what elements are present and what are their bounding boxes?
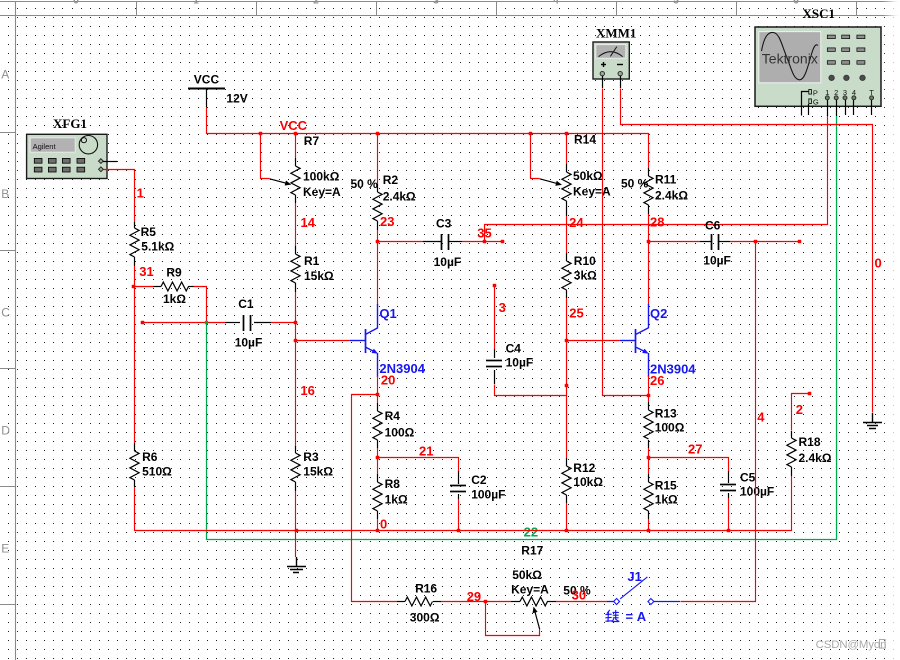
svg-text:6: 6	[793, 0, 799, 7]
wire R13 to node27	[648, 448, 650, 458]
svg-text:C: C	[1, 306, 10, 320]
endpoint node3	[493, 284, 497, 288]
svg-text:R14: R14	[574, 133, 596, 147]
svg-text:R5: R5	[141, 225, 157, 239]
svg-text:1: 1	[137, 186, 144, 201]
svg-text:C2: C2	[471, 473, 487, 487]
svg-text:R8: R8	[385, 477, 401, 491]
junction bus-R8	[376, 529, 380, 533]
svg-text:E: E	[1, 542, 9, 556]
wire Q1 collector	[377, 242, 379, 305]
junction VCC-R7wiper	[259, 132, 263, 136]
label key A	[606, 610, 619, 621]
capacitor C3 10uF	[378, 241, 423, 243]
svg-text:4: 4	[757, 410, 765, 425]
svg-text:16: 16	[300, 383, 314, 398]
svg-text:Key=A: Key=A	[573, 185, 611, 199]
right edge fade	[883, 0, 900, 660]
wire node20 to R16	[352, 395, 398, 602]
svg-text:3: 3	[433, 0, 439, 7]
svg-text:R10: R10	[574, 254, 596, 268]
svg-text:XFG1: XFG1	[53, 116, 87, 131]
instrument XMM1 multimeter	[593, 26, 636, 80]
wire C4 bottom to R12 column	[495, 385, 567, 396]
wire Q1 emitter to node20	[377, 376, 379, 394]
wire VCC stem	[206, 107, 208, 134]
potentiometer R7 100k Key=A	[295, 134, 297, 158]
wire R14 to 24line	[566, 216, 568, 224]
svg-text:R7: R7	[304, 134, 320, 148]
svg-text:1kΩ: 1kΩ	[655, 493, 678, 507]
svg-text:1: 1	[193, 0, 199, 7]
resistor R1 15k	[295, 246, 297, 254]
svg-text:G: G	[813, 98, 819, 107]
pot R17 wiper arrow	[535, 611, 540, 630]
svg-text:2: 2	[313, 0, 319, 7]
junction R12 column	[565, 384, 569, 388]
junction VCC-R7	[294, 132, 298, 136]
svg-text:= A: = A	[626, 609, 647, 624]
wire XMM1 plus to node26	[603, 89, 649, 396]
junction node29	[484, 600, 488, 604]
instrument XFG1 function generator	[27, 116, 107, 179]
svg-text:R15: R15	[655, 479, 677, 493]
svg-text:J1: J1	[627, 569, 641, 584]
svg-text:C4: C4	[506, 342, 522, 356]
potentiometer R17 50k Key=A	[485, 601, 511, 603]
junction bus-C2	[457, 529, 461, 533]
svg-text:23: 23	[380, 214, 394, 229]
wire node14 R7 to R1	[295, 203, 297, 246]
resistor R4 100	[377, 394, 379, 403]
svg-text:R17: R17	[521, 544, 543, 558]
svg-text:3kΩ: 3kΩ	[574, 269, 597, 283]
transistor Q1 2N3904	[365, 329, 367, 353]
svg-text:C3: C3	[436, 217, 452, 231]
wire Q2 emitter to node26	[648, 376, 650, 395]
svg-text:31: 31	[139, 264, 153, 279]
wire R3 to ground	[295, 491, 297, 557]
wire net24 to scope ch1	[485, 116, 828, 242]
svg-text:Key=A: Key=A	[511, 583, 549, 597]
resistor R8 1k	[377, 457, 379, 474]
svg-text:D: D	[1, 424, 10, 438]
wire R14 wiper	[531, 134, 540, 179]
resistor R13 100	[648, 395, 650, 402]
svg-text:R11: R11	[655, 173, 677, 187]
sheet border ruler top	[0, 1, 900, 3]
wire scope G stub	[808, 104, 810, 115]
capacitor C1 10uF	[143, 322, 225, 324]
svg-text:14: 14	[301, 215, 316, 230]
svg-text:30: 30	[572, 588, 586, 603]
svg-text:100kΩ: 100kΩ	[303, 170, 340, 184]
svg-text:XSC1: XSC1	[803, 6, 836, 21]
capacitor C4 10uF	[494, 285, 496, 349]
svg-text:29: 29	[467, 589, 481, 604]
wire R6 to bottom bus	[134, 487, 136, 531]
wire scope ch4 stub	[853, 100, 855, 115]
pot R7 wiper arrow	[270, 179, 288, 184]
capacitor C6 10uF	[648, 241, 700, 243]
junction C1 green tap	[205, 321, 208, 324]
junction bus-C5	[727, 529, 731, 533]
resistor R11 2.4k	[648, 168, 650, 176]
svg-text:2.4kΩ: 2.4kΩ	[383, 190, 416, 204]
svg-text:15kΩ: 15kΩ	[304, 269, 334, 283]
junction VCC-R14	[565, 132, 569, 136]
wire node25 to R12	[566, 341, 568, 458]
wire bottom bus net0	[134, 530, 792, 532]
wire R4 to node21	[377, 448, 379, 457]
wire XFG1 top stub	[103, 161, 117, 163]
endpoint C6 right	[798, 240, 802, 244]
switch J1 Key=A	[607, 601, 614, 603]
svg-text:A: A	[1, 68, 9, 82]
wire R7 wiper	[261, 134, 270, 179]
svg-text:R6: R6	[142, 450, 158, 464]
wire net22 green C1 to scope ch2	[207, 116, 837, 540]
junction C3-24line	[483, 240, 487, 244]
wire scope ch3 stub	[845, 100, 847, 115]
wire R11 to node28	[648, 214, 650, 242]
wire R17 wiper loop	[486, 602, 540, 636]
resistor R3 15k	[295, 446, 297, 453]
svg-text:10µF: 10µF	[506, 356, 534, 370]
junction node25	[565, 339, 569, 343]
svg-text:5.1kΩ: 5.1kΩ	[141, 240, 174, 254]
junction R3-bus	[295, 529, 299, 533]
svg-text:P: P	[813, 89, 818, 98]
wire R2 to node23	[377, 230, 379, 242]
wire R9 to C1 wire	[194, 287, 207, 323]
svg-text:1kΩ: 1kΩ	[385, 493, 408, 507]
wire node27 to C5	[649, 458, 729, 472]
wire scope T stub	[871, 100, 873, 115]
wire net0 XMM1 minus to right ground	[621, 89, 873, 413]
resistor R10 3k	[566, 224, 568, 253]
ground right	[872, 413, 874, 422]
svg-text:C5: C5	[740, 471, 756, 485]
svg-text:21: 21	[419, 444, 433, 459]
wire R5 to node31	[134, 266, 136, 287]
junction VCC-R14wiper	[529, 132, 533, 136]
svg-text:VCC: VCC	[280, 118, 308, 133]
svg-text:C6: C6	[705, 219, 721, 233]
resistor R16 300	[397, 601, 405, 603]
junction base row	[294, 339, 298, 343]
potentiometer R14 50k Key=A	[566, 134, 568, 164]
junction node28	[647, 240, 651, 244]
wire Q2 base	[566, 340, 620, 342]
svg-text:Tektronix: Tektronix	[762, 51, 818, 67]
wire scope ch1 stub	[827, 100, 829, 116]
svg-text:R13: R13	[655, 407, 677, 421]
svg-text:100µF: 100µF	[471, 488, 505, 502]
sheet border ruler left	[15, 2, 17, 660]
transistor Q2 2N3904	[635, 329, 637, 353]
wire XMM1 plus stub	[602, 76, 604, 88]
svg-text:510Ω: 510Ω	[142, 465, 172, 479]
svg-text:R1: R1	[304, 254, 320, 268]
svg-text:R18: R18	[799, 435, 821, 449]
endpoint C1 left	[141, 321, 145, 325]
wire XMM1 minus stub	[620, 76, 622, 88]
junction VCC-R2	[376, 132, 380, 136]
junction node23	[376, 240, 380, 244]
svg-text:100µF: 100µF	[740, 485, 774, 499]
capacitor C2 100uF	[458, 471, 460, 484]
junction node21	[376, 456, 380, 460]
svg-text:3: 3	[499, 300, 506, 315]
svg-text:Q2: Q2	[650, 306, 667, 321]
wire node2 to R18	[792, 394, 810, 431]
svg-text:24: 24	[569, 215, 584, 230]
wire R17 to J1	[556, 601, 607, 603]
wire Q2 collector	[648, 242, 650, 305]
svg-text:100Ω: 100Ω	[385, 426, 415, 440]
wire VCC bus	[207, 134, 649, 169]
junction node20	[376, 393, 380, 397]
svg-text:50kΩ: 50kΩ	[512, 568, 542, 582]
svg-text:0: 0	[73, 0, 79, 7]
svg-text:26: 26	[650, 373, 664, 388]
svg-text:5: 5	[673, 0, 679, 7]
svg-text:XMM1: XMM1	[596, 26, 636, 41]
svg-text:27: 27	[688, 442, 702, 457]
wire R10 to node25	[566, 298, 568, 341]
svg-text:12V: 12V	[226, 92, 247, 106]
junction C1-R1column	[294, 321, 298, 325]
svg-text:C1: C1	[238, 297, 254, 311]
svg-text:22: 22	[524, 525, 538, 540]
svg-text:2.4kΩ: 2.4kΩ	[655, 189, 688, 203]
VCC power symbol 12V	[188, 88, 225, 90]
svg-text:R9: R9	[166, 266, 182, 280]
pot R14 wiper arrow	[540, 179, 559, 184]
svg-text:25: 25	[569, 306, 583, 321]
svg-text:Key=A: Key=A	[303, 185, 341, 199]
svg-text:50kΩ: 50kΩ	[573, 169, 603, 183]
svg-text:R2: R2	[383, 173, 399, 187]
svg-text:R3: R3	[303, 450, 319, 464]
svg-text:50 %: 50 %	[351, 177, 379, 191]
wire scope P stub	[802, 92, 809, 116]
capacitor C5 100uF	[728, 471, 730, 483]
node 4 wire	[681, 242, 756, 602]
svg-text:28: 28	[650, 215, 664, 230]
svg-text:4: 4	[553, 0, 559, 7]
svg-text:0: 0	[380, 517, 387, 532]
svg-text:2: 2	[796, 402, 803, 417]
svg-text:10µF: 10µF	[235, 336, 263, 350]
junction node31	[132, 285, 136, 289]
svg-text:10µF: 10µF	[703, 254, 731, 268]
svg-text:CSDN@Myon: CSDN@Myon	[816, 639, 887, 651]
svg-text:B: B	[1, 187, 9, 201]
junction C6-wire4	[754, 240, 758, 244]
junction node27	[647, 456, 651, 460]
wire R18 to bottom bus	[791, 476, 793, 531]
junction bus-R12	[565, 529, 569, 533]
resistor R12 10k	[566, 458, 568, 466]
junction node26	[647, 394, 651, 398]
svg-text:1kΩ: 1kΩ	[163, 292, 186, 306]
svg-text:2.4kΩ: 2.4kΩ	[799, 451, 832, 465]
svg-text:VCC: VCC	[194, 73, 220, 87]
wire Q1 base	[296, 340, 350, 342]
svg-text:Agilent: Agilent	[33, 142, 57, 151]
resistor R2 2.4k	[377, 134, 379, 184]
svg-text:Q1: Q1	[379, 306, 396, 321]
svg-text:10µF: 10µF	[434, 255, 462, 269]
resistor R5 5.1k	[134, 222, 136, 228]
resistor R9 1k	[134, 286, 153, 288]
junction bus-R15	[647, 529, 651, 533]
resistor R6 510	[134, 286, 136, 443]
resistor R18 2.4k	[791, 431, 793, 438]
svg-text:10kΩ: 10kΩ	[573, 475, 603, 489]
svg-text:100Ω: 100Ω	[655, 421, 685, 435]
svg-text:0: 0	[875, 256, 882, 271]
wire R1 bottom to base row	[295, 292, 297, 446]
svg-text:R16: R16	[415, 582, 437, 596]
wire 1 XFG1 to R5	[104, 170, 135, 223]
resistor R15 1k	[648, 458, 650, 474]
wire node21 to C2	[378, 458, 459, 472]
svg-text:300Ω: 300Ω	[410, 611, 440, 625]
svg-text:R4: R4	[385, 409, 401, 423]
svg-text:15kΩ: 15kΩ	[303, 465, 333, 479]
svg-text:20: 20	[381, 373, 395, 388]
wire scope ch2 stub	[836, 100, 838, 116]
endpoint node2	[808, 392, 812, 396]
endpoint C3 right	[501, 240, 505, 244]
instrument XSC1 oscilloscope	[755, 6, 881, 107]
ground main	[296, 557, 298, 566]
svg-text:R12: R12	[573, 461, 595, 475]
